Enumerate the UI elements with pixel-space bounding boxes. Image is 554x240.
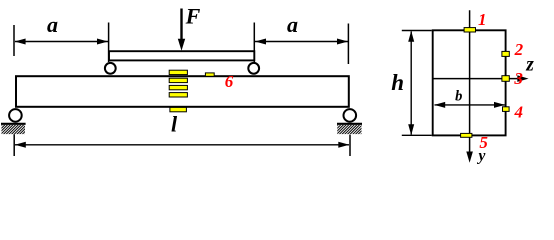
dimension l: ticks — [14, 134, 350, 156]
svg-text:a: a — [287, 12, 298, 37]
cross-section: z axis line — [433, 78, 521, 80]
svg-text:2: 2 — [514, 40, 524, 59]
svg-text:5: 5 — [479, 133, 488, 152]
svg-text:4: 4 — [513, 102, 523, 121]
svg-text:F: F — [185, 3, 201, 28]
dimension a left: line — [15, 41, 108, 43]
cross-section rectangle — [433, 30, 506, 135]
dimension a right: line — [255, 41, 348, 43]
force F arrow — [178, 9, 185, 51]
dimension h: ticks — [402, 31, 432, 136]
dimension b: arrowheads — [434, 102, 505, 108]
gauge 2 (right upper) — [502, 51, 509, 56]
dimension a right: ticks — [254, 23, 348, 65]
gauge 4 (right lower) — [503, 107, 510, 112]
svg-text:3: 3 — [513, 69, 523, 88]
dimension a right: arrowheads — [255, 39, 348, 45]
svg-text:a: a — [47, 12, 58, 37]
roller left under loading beam — [105, 63, 116, 74]
dimension l: arrowheads — [15, 142, 350, 148]
cross-section: y axis arrowhead — [466, 152, 473, 163]
dimension l: line — [15, 144, 349, 146]
svg-text:z: z — [525, 54, 534, 75]
dimension b: line — [435, 104, 505, 106]
strain gauge 6 on top surface — [205, 73, 214, 76]
cross-section: y axis line — [469, 10, 471, 155]
right support ground line — [337, 123, 362, 125]
top loading beam — [109, 51, 254, 60]
svg-text:1: 1 — [478, 10, 487, 29]
left support roller — [9, 109, 22, 122]
gauge 1 (top) — [464, 28, 475, 32]
roller right under loading beam — [248, 63, 259, 74]
strain gauge stack on beam (section gauges) — [169, 70, 187, 112]
gauge 3 (right middle) — [502, 76, 509, 82]
gauge 5 (bottom) — [461, 133, 472, 137]
svg-text:l: l — [171, 112, 178, 137]
left support hatch — [2, 125, 26, 134]
svg-text:b: b — [455, 88, 462, 104]
svg-text:6: 6 — [225, 72, 234, 91]
dimension a left: ticks — [14, 23, 109, 63]
dimension h: arrowheads — [408, 31, 414, 135]
main beam — [16, 76, 349, 107]
left support ground line — [1, 123, 26, 125]
right support roller — [344, 109, 357, 122]
svg-text:h: h — [391, 70, 404, 95]
dimension h: line — [410, 32, 412, 135]
dimension a left: arrowheads — [15, 39, 108, 45]
right support hatch — [337, 125, 361, 134]
cross-section: z axis arrowhead — [517, 75, 528, 82]
